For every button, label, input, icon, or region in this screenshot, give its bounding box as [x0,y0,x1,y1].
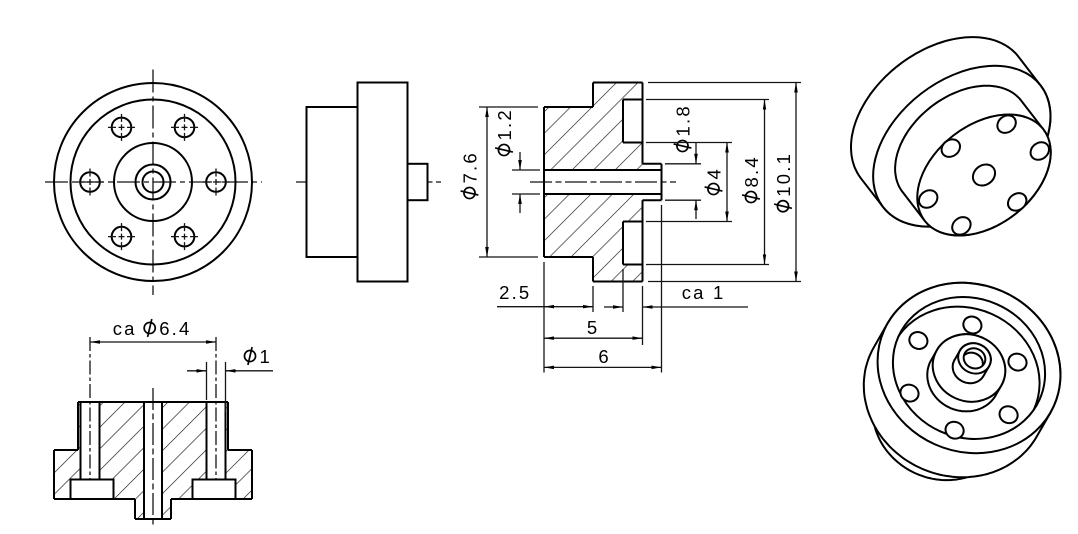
dimension 2.5 [497,282,593,309]
dimension ca D6.4 [90,318,216,344]
iso view B flange silhouette [864,283,1061,477]
dimension ca 1 [604,282,748,309]
front view stub circle D1.8 [136,165,171,200]
svg-text:ca 1: ca 1 [682,282,726,303]
front view hub circle D4 [114,143,192,221]
iso view B bore hole [960,345,988,372]
svg-text:1: 1 [260,346,273,367]
iso view B bolt hole 2 [943,419,967,442]
dimension D4 extension lines [646,143,732,222]
extension line recess [622,269,624,312]
bottom section bore edges [144,402,162,519]
section centerline [530,181,676,183]
section lower half hatched area [544,194,643,282]
section recess notch lower D8.4 [623,222,643,265]
bottom section bolt hole right edges [207,402,226,480]
iso view A bolt hole 6 [994,112,1019,137]
dimension D1.2 extension lines [512,170,540,194]
dimension D10.1 [773,83,798,282]
front view bolt hole 1 [203,169,230,196]
iso view A bolt hole 4 [915,187,940,212]
svg-text:8.4: 8.4 [741,155,762,187]
front view bolt hole 2 [171,114,198,141]
extension line stub end [661,205,663,373]
bottom section bolt hole centerline left [89,337,91,495]
iso view A bolt hole 1 [1027,139,1052,164]
dimension 2.5 extension line [592,286,594,312]
svg-text:2.5: 2.5 [499,282,531,303]
svg-text:10.1: 10.1 [773,152,794,197]
bottom section center line [152,388,154,528]
svg-text:5: 5 [587,317,600,338]
dimension D1 [187,346,273,373]
bottom section bolt hole left edges [81,402,100,480]
dimension D8.4 extension lines [646,100,769,265]
svg-text:6.4: 6.4 [159,318,191,339]
dimension 5 [544,317,643,340]
side view stub D1.8 rectangle [408,164,428,200]
bottom section recess notch left [71,480,114,500]
front view recess circle D8.4 [71,100,236,265]
front view horizontal centerline [45,181,262,183]
svg-text:1.8: 1.8 [672,104,693,136]
svg-text:6: 6 [598,346,611,367]
svg-text:7.6: 7.6 [459,151,480,183]
front view bolt hole 6 [171,223,198,250]
iso view B recess rim [870,273,1068,463]
iso view B bore inner wall [958,349,986,376]
iso view A bolt hole 3 [949,214,974,239]
front view bore circle D1.2 [143,172,164,193]
iso view A bolt hole 2 [1004,190,1029,215]
section bore edges D1.2 [544,170,662,194]
svg-text:1.2: 1.2 [494,108,515,140]
iso view B hub top rim [922,323,1016,413]
bottom section bolt hole centerline right [215,337,217,495]
iso view B bolt hole 6 [1006,351,1030,374]
dimension D7.6 extension lines [479,107,538,257]
iso view B rear body silhouette [873,328,1024,480]
front view bolt hole 3 [108,114,135,141]
section outline [544,83,662,282]
side view body D7.6 rectangle [307,107,358,257]
side view centerline [296,181,441,183]
iso view B bolt hole 5 [961,314,985,337]
iso view A body silhouette [895,86,1051,236]
iso view A bore hole [969,160,1000,190]
iso view B front face [850,254,1078,482]
bottom section outline [54,402,252,519]
dimension D1.8 [672,104,698,219]
iso view A bolt hole 5 [938,136,963,161]
extension line left face [543,262,545,373]
iso view B hub silhouette [927,334,1005,411]
svg-text:ca: ca [113,318,137,339]
dimension D8.4 [741,100,766,265]
iso view A front face [894,90,1074,261]
iso view B stub silhouette [953,343,991,383]
iso view B bolt hole 3 [898,382,922,405]
dimension D1 extension lines [207,362,226,412]
side view flange D10.1 rectangle [358,83,408,282]
dimension D4 [703,143,729,222]
svg-text:4: 4 [703,167,724,180]
iso view A flange silhouette [851,37,1051,227]
front view vertical centerline [152,70,154,296]
bottom section hatched area [54,402,252,519]
iso view A flange front rim [842,33,1078,260]
dimension D7.6 [459,107,489,257]
front view bolt hole 5 [108,223,135,250]
bottom section recess notch right [193,480,236,500]
iso view B stub top rim [953,338,995,379]
iso view B recess floor edge [865,283,1063,473]
iso view B bolt hole 4 [907,329,931,352]
dimension D10.1 extension lines [648,83,801,282]
dimension 6 [544,346,662,369]
iso view B bolt hole 1 [997,403,1021,426]
extension line right face [642,286,644,345]
front view outer circle D10.1 [54,83,252,281]
dimension D1.8 extension lines [665,164,701,200]
section upper half hatched area [544,83,643,171]
section recess notch upper D8.4 [623,100,643,143]
dimension D1.2 [494,108,522,213]
front view bolt hole 4 [77,169,104,196]
